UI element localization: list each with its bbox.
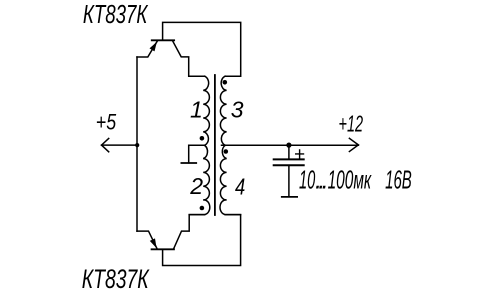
wire left rail [136,57,138,231]
transistor Q2 collector [174,215,205,249]
transformer winding 4 [220,145,241,214]
transistor Q2 emitter [137,231,157,248]
capacitor C1 top lead [288,145,290,159]
capacitor C1 bottom lead [288,166,290,196]
transformer winding 3 [220,76,226,145]
svg-text:100мк: 100мк [328,167,372,195]
node +5 junction [135,143,139,147]
transformer winding 2 [189,145,210,214]
capacitor plus sign [296,150,304,158]
transistor Q1 emitter [137,41,157,57]
ground capacitor [282,196,297,198]
svg-text:10: 10 [299,167,316,195]
svg-text:4: 4 [235,175,245,200]
wire +5 input [102,144,138,146]
svg-text:КТ837К: КТ837К [82,264,150,293]
transformer core [214,75,216,215]
svg-text:КТ837К: КТ837К [83,0,149,29]
arrow +12 [349,138,358,151]
transistor Q2 emitter arrow [150,238,157,248]
polarity dot winding 1 [200,136,205,141]
svg-text:16В: 16В [385,167,412,195]
transistor Q2 base bar [152,248,174,250]
transformer winding 1 [203,76,209,145]
svg-text:+12: +12 [339,112,364,137]
wire base VT2 to winding 4 bottom [163,215,241,266]
polarity dot winding 4 [224,149,229,154]
capacitor C1 plates [274,159,304,165]
svg-text:2: 2 [189,173,203,199]
svg-text:+5: +5 [96,111,117,135]
arrow +5 [102,138,109,151]
transistor Q1 emitter arrow [150,42,157,52]
polarity dot winding 2 [200,206,205,211]
node capacitor junction [286,143,291,148]
svg-text:1: 1 [190,96,203,122]
wire center tap to ground [189,145,205,163]
svg-text:3: 3 [231,96,244,122]
wire +12 output [222,144,359,146]
transistor Q1 collector [173,41,205,76]
polarity dot winding 3 [223,80,228,85]
transistor Q1 base bar [152,39,174,41]
wire base VT1 to winding 3 top [163,22,241,76]
ground [181,162,196,164]
